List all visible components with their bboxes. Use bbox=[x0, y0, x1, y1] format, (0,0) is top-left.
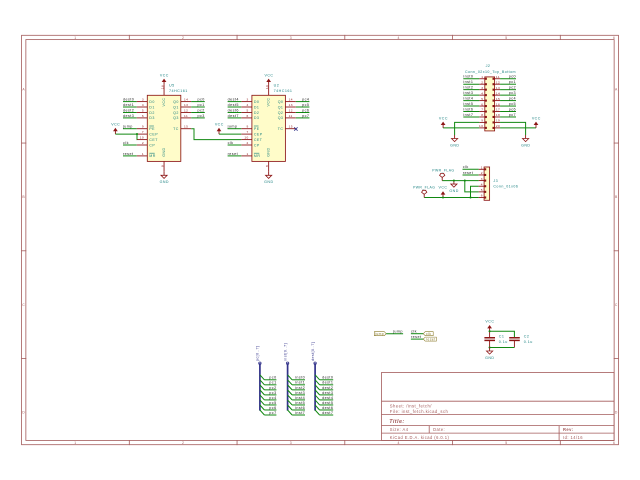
wires: dest0-dest3 into U5 D0-D3 bbox=[123, 102, 137, 118]
svg-text:pc3: pc3 bbox=[198, 114, 205, 118]
svg-text:dest5: dest5 bbox=[228, 103, 239, 107]
svg-text:GND: GND bbox=[267, 147, 271, 156]
svg-text:D0: D0 bbox=[254, 100, 260, 104]
wire inst6 bbox=[292, 409, 305, 411]
svg-text:Q3: Q3 bbox=[173, 116, 179, 120]
svg-text:C: C bbox=[22, 303, 25, 307]
bus dest[0..7] bbox=[311, 342, 316, 411]
svg-text:dest1: dest1 bbox=[322, 381, 333, 385]
svg-text:D3: D3 bbox=[254, 116, 260, 120]
bus entry pc6 bbox=[260, 405, 265, 410]
svg-text:8: 8 bbox=[481, 113, 483, 117]
svg-text:pc7: pc7 bbox=[302, 114, 309, 118]
global label jump bbox=[374, 332, 386, 336]
svg-text:PWR_FLAG: PWR_FLAG bbox=[413, 186, 435, 190]
svg-text:Rev:: Rev: bbox=[563, 427, 574, 432]
svg-text:pc4: pc4 bbox=[302, 98, 309, 102]
svg-text:C1: C1 bbox=[499, 335, 505, 339]
svg-text:J3: J3 bbox=[493, 179, 498, 183]
junction VCC at J3 bbox=[442, 196, 444, 198]
wire pc0 bbox=[264, 379, 276, 381]
wire J2 pin9 to ground bbox=[455, 122, 480, 135]
svg-text:inst4: inst4 bbox=[463, 96, 473, 100]
wire reset to U5 MR bbox=[123, 155, 137, 157]
global label clk bbox=[423, 332, 433, 336]
wire VCC to U2 CEP bbox=[219, 133, 241, 135]
wire jump to U5 PE bbox=[123, 128, 137, 130]
wire dest1 bbox=[320, 384, 334, 386]
bus entry dest6 bbox=[315, 405, 320, 410]
svg-text:pc6: pc6 bbox=[302, 108, 309, 112]
svg-text:4: 4 bbox=[142, 103, 144, 107]
svg-text:74HC161: 74HC161 bbox=[169, 89, 188, 93]
wire pc6 bbox=[264, 409, 276, 411]
svg-text:inst6: inst6 bbox=[463, 107, 473, 111]
svg-text:inst6: inst6 bbox=[295, 406, 305, 410]
svg-text:pc4: pc4 bbox=[509, 96, 516, 100]
wire pin4 to VCC net bbox=[471, 186, 479, 197]
bus inst[0..7] bbox=[283, 343, 288, 411]
wires: dest4-dest7 into U2 D0-D3 bbox=[228, 102, 242, 118]
svg-text:15: 15 bbox=[496, 97, 500, 101]
svg-text:Q0: Q0 bbox=[173, 100, 179, 104]
svg-text:pc3: pc3 bbox=[269, 391, 276, 395]
svg-text:B: B bbox=[615, 195, 618, 199]
wire pc1 bbox=[264, 384, 276, 386]
svg-text:0.1u: 0.1u bbox=[499, 340, 508, 344]
svg-text:A: A bbox=[22, 88, 25, 92]
svg-text:10: 10 bbox=[140, 136, 144, 140]
wire pin3 net to pin5 bbox=[465, 181, 479, 192]
svg-text:clk: clk bbox=[463, 165, 469, 169]
svg-text:pc6: pc6 bbox=[269, 406, 276, 410]
wire reset to U2 MR bbox=[228, 155, 242, 157]
bus entry pc2 bbox=[260, 385, 265, 390]
wire jump to U2 PE bbox=[228, 128, 242, 130]
svg-text:clk: clk bbox=[123, 141, 129, 145]
bus entry inst0 bbox=[288, 375, 293, 380]
svg-text:reset: reset bbox=[123, 152, 133, 156]
svg-text:5: 5 bbox=[481, 188, 483, 192]
svg-text:jump: jump bbox=[227, 125, 238, 129]
labels pc0..pc3 bbox=[198, 98, 205, 118]
bus entry inst5 bbox=[288, 400, 293, 405]
wire pc5 bbox=[264, 404, 276, 406]
svg-text:pc3: pc3 bbox=[509, 91, 516, 95]
svg-text:Q2: Q2 bbox=[173, 111, 179, 115]
junction pin4/pin6 tie bbox=[469, 196, 471, 198]
labels dest0..dest3 bbox=[123, 98, 134, 118]
wire U5 TC to U2 CET bbox=[191, 129, 241, 140]
svg-text:12: 12 bbox=[184, 109, 188, 113]
wire reset to J3 pin2 bbox=[463, 174, 479, 176]
svg-text:VCC: VCC bbox=[162, 98, 166, 107]
svg-text:PE: PE bbox=[149, 127, 155, 131]
svg-text:VCC: VCC bbox=[439, 186, 448, 190]
junction at C1 top bbox=[489, 330, 491, 332]
svg-text:pc6: pc6 bbox=[509, 107, 516, 111]
no-connect X on U2 TC bbox=[294, 127, 297, 130]
power VCC above C1 bbox=[485, 320, 494, 332]
svg-text:5: 5 bbox=[505, 441, 507, 445]
svg-text:D: D bbox=[22, 411, 25, 415]
svg-text:pc1: pc1 bbox=[509, 80, 516, 84]
svg-text:PE: PE bbox=[254, 127, 260, 131]
ground right of J2 bbox=[521, 135, 530, 147]
svg-text:clk: clk bbox=[411, 330, 417, 334]
ground below U2 bbox=[264, 172, 273, 184]
svg-text:inst[0..7]: inst[0..7] bbox=[283, 343, 287, 361]
svg-text:Q1: Q1 bbox=[173, 105, 179, 109]
svg-text:dest[0..7]: dest[0..7] bbox=[311, 342, 315, 361]
svg-text:reset: reset bbox=[411, 335, 421, 339]
wire inst5 bbox=[292, 404, 305, 406]
bus entry dest5 bbox=[315, 400, 320, 405]
svg-text:16: 16 bbox=[496, 102, 500, 106]
wire inst4 bbox=[292, 399, 305, 401]
svg-text:inst3: inst3 bbox=[295, 391, 305, 395]
svg-text:dest1: dest1 bbox=[123, 103, 134, 107]
svg-text:0.1u: 0.1u bbox=[524, 340, 533, 344]
svg-text:reset: reset bbox=[228, 152, 238, 156]
svg-text:pc0: pc0 bbox=[509, 75, 516, 79]
svg-text:reset: reset bbox=[426, 337, 436, 341]
svg-text:dest6: dest6 bbox=[322, 406, 333, 410]
svg-text:15: 15 bbox=[289, 125, 293, 129]
bus entry inst1 bbox=[288, 380, 293, 385]
svg-text:pc5: pc5 bbox=[302, 103, 309, 107]
svg-text:A: A bbox=[615, 88, 618, 92]
title block bbox=[382, 373, 615, 441]
svg-text:2: 2 bbox=[481, 171, 483, 175]
svg-text:VCC: VCC bbox=[215, 123, 224, 127]
labels pc4..pc7 bbox=[302, 98, 309, 118]
PWR_FLAG on VCC net bbox=[422, 190, 427, 197]
PWR_FLAG on GND net bbox=[440, 173, 445, 180]
svg-text:pc0: pc0 bbox=[198, 98, 205, 102]
svg-text:inst3: inst3 bbox=[463, 91, 473, 95]
svg-text:inst4: inst4 bbox=[295, 396, 305, 400]
svg-text:dest5: dest5 bbox=[322, 401, 333, 405]
svg-text:4: 4 bbox=[481, 91, 483, 95]
bus entry inst7 bbox=[288, 410, 293, 415]
svg-text:GND: GND bbox=[449, 189, 458, 193]
svg-text:2: 2 bbox=[182, 441, 184, 445]
svg-text:pc2: pc2 bbox=[509, 86, 516, 90]
svg-text:pc1: pc1 bbox=[198, 103, 205, 107]
svg-text:GND: GND bbox=[521, 143, 530, 147]
bus entry pc7 bbox=[260, 410, 265, 415]
junction at U5 CEP bbox=[136, 133, 138, 135]
svg-text:4: 4 bbox=[398, 441, 400, 445]
svg-text:dest3: dest3 bbox=[123, 114, 134, 118]
wire pc2 bbox=[264, 389, 276, 391]
bus entry inst2 bbox=[288, 385, 293, 390]
svg-text:7: 7 bbox=[481, 108, 483, 112]
wire GND net to J3 pin3 bbox=[442, 180, 478, 182]
svg-text:12: 12 bbox=[496, 80, 500, 84]
bus entry dest1 bbox=[315, 380, 320, 385]
wire dest3 bbox=[320, 394, 334, 396]
svg-text:1: 1 bbox=[247, 152, 249, 156]
bus entry pc3 bbox=[260, 390, 265, 395]
wires U5 Q0-Q3 to pc0..pc3 bbox=[191, 102, 205, 118]
wire VCC net to J3 pin6 bbox=[424, 197, 478, 199]
svg-text:dest4: dest4 bbox=[228, 98, 239, 102]
svg-text:3: 3 bbox=[481, 86, 483, 90]
svg-text:8: 8 bbox=[265, 165, 269, 167]
svg-text:dest2: dest2 bbox=[322, 386, 333, 390]
bus entry pc1 bbox=[260, 380, 265, 385]
power VCC left of J2 bbox=[439, 116, 448, 128]
svg-text:U2: U2 bbox=[274, 84, 280, 88]
svg-text:1: 1 bbox=[142, 152, 144, 156]
bus entry pc4 bbox=[260, 395, 265, 400]
svg-text:MR: MR bbox=[254, 154, 261, 158]
svg-text:dest2: dest2 bbox=[123, 108, 134, 112]
svg-text:Q0: Q0 bbox=[278, 100, 284, 104]
wire pc3 bbox=[264, 394, 276, 396]
svg-text:Sheet: /inst_fetch/: Sheet: /inst_fetch/ bbox=[390, 403, 432, 408]
svg-text:5: 5 bbox=[505, 36, 507, 40]
svg-text:jump: jump bbox=[122, 125, 133, 129]
svg-text:13: 13 bbox=[496, 86, 500, 90]
svg-text:10: 10 bbox=[244, 136, 248, 140]
svg-text:CP: CP bbox=[149, 143, 155, 147]
svg-text:VCC: VCC bbox=[532, 116, 541, 120]
svg-text:VCC: VCC bbox=[485, 320, 494, 324]
svg-text:VCC: VCC bbox=[111, 123, 120, 127]
svg-text:4: 4 bbox=[398, 36, 400, 40]
svg-text:VCC: VCC bbox=[267, 98, 271, 107]
svg-text:pc7: pc7 bbox=[509, 113, 516, 117]
wire reset bbox=[411, 338, 423, 340]
svg-text:14: 14 bbox=[289, 98, 293, 102]
svg-text:74HC161: 74HC161 bbox=[274, 89, 293, 93]
svg-text:C: C bbox=[615, 303, 618, 307]
wire jump bbox=[386, 333, 403, 335]
svg-text:3: 3 bbox=[142, 98, 144, 102]
svg-text:2: 2 bbox=[142, 141, 144, 145]
ground at J3 pin3 bbox=[449, 181, 458, 193]
bus entry dest2 bbox=[315, 385, 320, 390]
svg-text:VCC: VCC bbox=[264, 73, 273, 77]
svg-text:D: D bbox=[615, 411, 618, 415]
svg-text:16: 16 bbox=[160, 85, 164, 89]
svg-text:TC: TC bbox=[278, 127, 284, 131]
wire clk bbox=[411, 333, 423, 335]
svg-text:inst1: inst1 bbox=[463, 80, 473, 84]
wire dest2 bbox=[320, 389, 334, 391]
svg-text:9: 9 bbox=[142, 125, 144, 129]
capacitor C1 bbox=[484, 331, 507, 347]
svg-text:4: 4 bbox=[247, 103, 249, 107]
svg-text:dest7: dest7 bbox=[228, 114, 239, 118]
wire pc7 bbox=[264, 414, 276, 416]
svg-text:inst0: inst0 bbox=[463, 75, 473, 79]
svg-text:9: 9 bbox=[481, 119, 483, 123]
connector J2 Conn_02x10_Top_Bottom bbox=[465, 64, 516, 131]
svg-text:Conn_02x10_Top_Bottom: Conn_02x10_Top_Bottom bbox=[465, 70, 516, 74]
ground below U5 bbox=[160, 172, 169, 184]
svg-text:pc5: pc5 bbox=[509, 102, 516, 106]
svg-text:1: 1 bbox=[74, 36, 76, 40]
svg-text:inst1: inst1 bbox=[295, 381, 305, 385]
svg-text:6: 6 bbox=[613, 36, 615, 40]
svg-text:D1: D1 bbox=[149, 105, 155, 109]
wire VCC to CEP bbox=[115, 133, 136, 135]
bus entry inst3 bbox=[288, 390, 293, 395]
svg-text:14: 14 bbox=[496, 91, 500, 95]
svg-text:VCC: VCC bbox=[439, 116, 448, 120]
svg-text:Conn_01x06: Conn_01x06 bbox=[493, 185, 518, 189]
svg-text:pc2: pc2 bbox=[269, 386, 276, 390]
svg-text:D1: D1 bbox=[254, 105, 260, 109]
svg-text:Q1: Q1 bbox=[278, 105, 284, 109]
svg-text:inst5: inst5 bbox=[295, 401, 305, 405]
svg-text:inst7: inst7 bbox=[295, 411, 305, 415]
svg-text:8: 8 bbox=[160, 165, 164, 167]
global label reset bbox=[423, 337, 436, 341]
svg-text:16: 16 bbox=[265, 85, 269, 89]
wire inst7 bbox=[292, 414, 305, 416]
svg-text:D0: D0 bbox=[149, 100, 155, 104]
bus entry dest7 bbox=[315, 410, 320, 415]
svg-text:KiCad E.D.A. kicad (6.0.1): KiCad E.D.A. kicad (6.0.1) bbox=[390, 435, 450, 440]
svg-text:14: 14 bbox=[184, 98, 188, 102]
svg-text:2: 2 bbox=[247, 141, 249, 145]
svg-text:18: 18 bbox=[496, 113, 500, 117]
svg-text:pc2: pc2 bbox=[198, 108, 205, 112]
svg-text:GND: GND bbox=[485, 356, 494, 360]
svg-text:VCC: VCC bbox=[160, 73, 169, 77]
wires pc0..pc7 to J2 pins 11-18 bbox=[500, 79, 516, 117]
ground left of J2 bbox=[450, 135, 459, 147]
svg-text:6: 6 bbox=[481, 194, 483, 198]
svg-text:5: 5 bbox=[247, 109, 249, 113]
svg-text:CEP: CEP bbox=[254, 132, 263, 136]
svg-text:C2: C2 bbox=[524, 335, 530, 339]
svg-text:pc[0..7]: pc[0..7] bbox=[256, 346, 260, 361]
svg-text:7: 7 bbox=[247, 130, 249, 134]
74HC161 counter U5 bbox=[137, 84, 192, 172]
power VCC feeding U2 CEP bbox=[215, 123, 224, 135]
power VCC feeding U5 CEP/CET bbox=[111, 123, 120, 135]
wire dest5 bbox=[320, 404, 334, 406]
svg-text:13: 13 bbox=[289, 103, 293, 107]
svg-text:Q3: Q3 bbox=[278, 116, 284, 120]
svg-text:3: 3 bbox=[481, 177, 483, 181]
wire C2 bottom to GND bbox=[490, 347, 515, 349]
svg-text:MR: MR bbox=[149, 154, 156, 158]
junction J3 pin3/gnd bbox=[453, 180, 455, 182]
svg-text:D3: D3 bbox=[149, 116, 155, 120]
svg-text:6: 6 bbox=[247, 114, 249, 118]
svg-text:1: 1 bbox=[481, 166, 483, 170]
svg-text:17: 17 bbox=[496, 108, 500, 112]
svg-text:dest7: dest7 bbox=[322, 411, 333, 415]
wire J2 pin10 to VCC bbox=[443, 127, 479, 129]
svg-text:D2: D2 bbox=[149, 111, 155, 115]
svg-text:clk: clk bbox=[228, 141, 234, 145]
labels inst0..inst7 bbox=[463, 75, 473, 117]
wire inst1 bbox=[292, 384, 305, 386]
svg-text:Id: 14/16: Id: 14/16 bbox=[563, 435, 583, 440]
svg-text:dest0: dest0 bbox=[123, 98, 134, 102]
wire clk to U2 CP bbox=[228, 144, 242, 146]
svg-text:3: 3 bbox=[290, 36, 292, 40]
wire dest4 bbox=[320, 399, 334, 401]
junction pin3/pin5 tie bbox=[464, 180, 466, 182]
svg-text:reset: reset bbox=[463, 171, 473, 175]
wire inst3 bbox=[292, 394, 305, 396]
bus entry inst4 bbox=[288, 395, 293, 400]
wire VCC to C2 bbox=[490, 331, 515, 337]
74HC161 counter U2 bbox=[241, 84, 295, 172]
wire clk to U5 CP bbox=[123, 144, 137, 146]
wire dest6 bbox=[320, 409, 334, 411]
power VCC above U5 bbox=[160, 73, 169, 85]
svg-text:GND: GND bbox=[264, 180, 273, 184]
svg-text:CP: CP bbox=[254, 143, 260, 147]
svg-text:19: 19 bbox=[496, 119, 500, 123]
svg-text:File: inst_fetch.kicad_sch: File: inst_fetch.kicad_sch bbox=[390, 409, 449, 414]
svg-text:Date:: Date: bbox=[433, 427, 445, 432]
svg-text:TC: TC bbox=[173, 127, 179, 131]
svg-text:13: 13 bbox=[184, 103, 188, 107]
wire inst2 bbox=[292, 389, 305, 391]
wire J2 pin19 to ground bbox=[500, 122, 526, 135]
svg-text:7: 7 bbox=[142, 130, 144, 134]
bus entry dest0 bbox=[315, 375, 320, 380]
junction at C1 bottom bbox=[489, 346, 491, 348]
svg-text:Title:: Title: bbox=[389, 419, 404, 425]
wire dest7 bbox=[320, 414, 334, 416]
svg-text:dest0: dest0 bbox=[322, 376, 333, 380]
bus entry pc5 bbox=[260, 400, 265, 405]
ground below C1 bbox=[485, 348, 494, 360]
svg-text:PWR_FLAG: PWR_FLAG bbox=[432, 168, 454, 172]
bus entry dest4 bbox=[315, 395, 320, 400]
wire pc4 bbox=[264, 399, 276, 401]
svg-text:2: 2 bbox=[182, 36, 184, 40]
svg-text:pc5: pc5 bbox=[269, 401, 276, 405]
svg-text:inst2: inst2 bbox=[295, 386, 305, 390]
svg-text:pc7: pc7 bbox=[269, 411, 276, 415]
svg-text:6: 6 bbox=[613, 441, 615, 445]
svg-text:15: 15 bbox=[184, 125, 188, 129]
svg-text:pc0: pc0 bbox=[269, 376, 276, 380]
svg-text:3: 3 bbox=[290, 441, 292, 445]
svg-text:CET: CET bbox=[149, 138, 158, 142]
bus pc[0..7] bbox=[256, 346, 261, 411]
svg-text:CET: CET bbox=[254, 138, 263, 142]
svg-text:6: 6 bbox=[142, 114, 144, 118]
svg-text:4: 4 bbox=[481, 182, 483, 186]
svg-text:10: 10 bbox=[479, 124, 483, 128]
svg-text:U5: U5 bbox=[169, 84, 175, 88]
svg-text:CEP: CEP bbox=[149, 132, 158, 136]
svg-text:jump: jump bbox=[392, 330, 403, 334]
svg-text:inst2: inst2 bbox=[463, 86, 473, 90]
wire clk to J3 pin1 bbox=[463, 168, 479, 170]
svg-text:11: 11 bbox=[289, 114, 293, 118]
svg-text:clk: clk bbox=[426, 332, 431, 336]
svg-text:inst7: inst7 bbox=[463, 113, 473, 117]
svg-text:2: 2 bbox=[481, 80, 483, 84]
bus entry pc0 bbox=[260, 375, 265, 380]
svg-text:5: 5 bbox=[142, 109, 144, 113]
